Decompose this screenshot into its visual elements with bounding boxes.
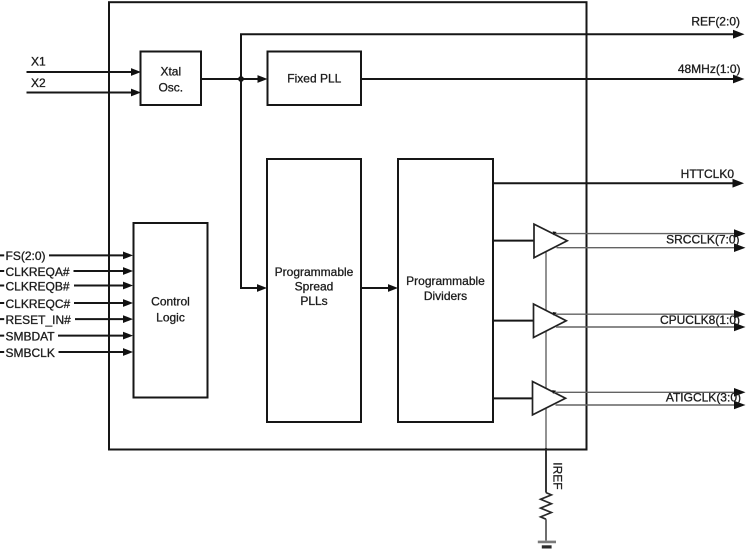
svg-text:IREF: IREF	[551, 462, 565, 489]
svg-text:Fixed PLL: Fixed PLL	[287, 72, 341, 86]
svg-text:CLKREQC#: CLKREQC#	[6, 297, 71, 311]
svg-text:X2: X2	[31, 76, 46, 90]
svg-text:Programmable: Programmable	[275, 265, 354, 279]
svg-text:CLKREQB#: CLKREQB#	[6, 279, 70, 293]
svg-text:SMBCLK: SMBCLK	[6, 346, 55, 360]
svg-text:Logic: Logic	[156, 310, 185, 324]
svg-text:SRCCLK(7:0): SRCCLK(7:0)	[666, 232, 739, 246]
svg-text:HTTCLK0: HTTCLK0	[681, 167, 735, 181]
svg-text:RESET_IN#: RESET_IN#	[6, 313, 72, 327]
svg-text:ATIGCLK(3:0): ATIGCLK(3:0)	[666, 390, 741, 404]
svg-text:Spread: Spread	[295, 280, 334, 294]
svg-text:CPUCLK8(1:0): CPUCLK8(1:0)	[660, 313, 740, 327]
svg-text:SMBDAT: SMBDAT	[6, 329, 56, 343]
svg-text:PLLs: PLLs	[300, 294, 327, 308]
svg-text:Programmable: Programmable	[406, 274, 485, 288]
svg-text:Xtal: Xtal	[160, 65, 181, 79]
svg-text:CLKREQA#: CLKREQA#	[6, 265, 70, 279]
svg-text:Osc.: Osc.	[158, 80, 183, 94]
svg-text:FS(2:0): FS(2:0)	[6, 249, 46, 263]
svg-text:48MHz(1:0): 48MHz(1:0)	[678, 62, 741, 76]
svg-text:REF(2:0): REF(2:0)	[691, 14, 740, 28]
svg-text:Control: Control	[151, 294, 190, 308]
svg-text:Dividers: Dividers	[424, 289, 467, 303]
svg-text:X1: X1	[31, 54, 46, 68]
